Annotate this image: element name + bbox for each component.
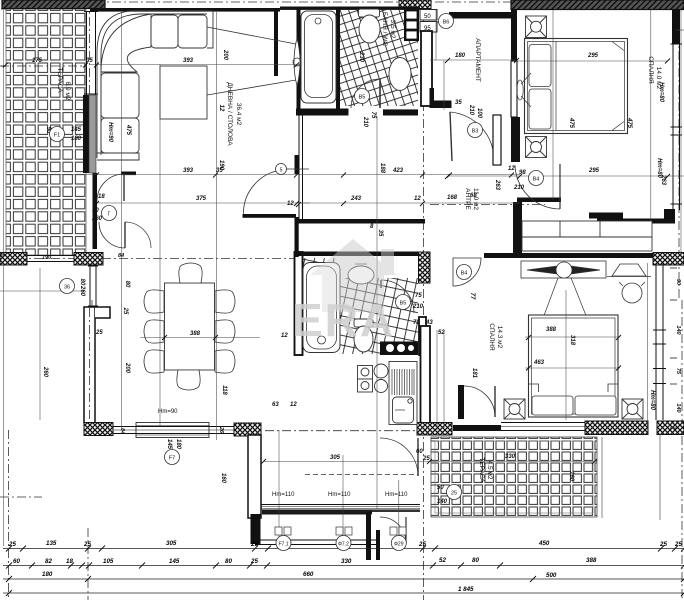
svg-text:77: 77 [469, 293, 475, 300]
svg-text:Ф29: Ф29 [394, 542, 404, 548]
svg-text:18: 18 [98, 194, 105, 200]
svg-text:25: 25 [122, 307, 128, 315]
svg-text:36.4 м2: 36.4 м2 [235, 103, 242, 126]
living west wall segment [93, 173, 98, 249]
row1 labels [8, 540, 682, 548]
svg-text:СПАЛНЯ: СПАЛНЯ [488, 323, 495, 351]
svg-text:388: 388 [190, 331, 201, 337]
svg-text:90: 90 [675, 279, 681, 285]
bed 2 bedroom bottom-right [529, 315, 619, 417]
svg-text:200: 200 [124, 362, 130, 374]
inner dim ticks [3, 58, 670, 464]
tick marks rows [6, 546, 684, 597]
entrance door B3 arc [450, 112, 501, 165]
kitchen west wall band [248, 435, 261, 518]
small paired boxes above circles [275, 527, 406, 535]
south wall below window [262, 510, 372, 515]
svg-text:18: 18 [66, 558, 73, 565]
terrace-living wall lower black [83, 95, 89, 173]
bathroom2 right wall below door [419, 317, 426, 355]
door bathroom2 arc [381, 280, 414, 313]
svg-text:60: 60 [13, 558, 20, 565]
svg-text:25: 25 [418, 541, 426, 548]
bathtub 1 [301, 11, 336, 103]
svg-text:B4: B4 [461, 271, 468, 277]
bedroom1 bottom wall right part [589, 213, 623, 219]
svg-text:100: 100 [476, 108, 482, 119]
svg-text:Hm=90: Hm=90 [158, 409, 178, 415]
door bath1 arc [351, 79, 380, 108]
svg-text:263: 263 [660, 174, 666, 186]
bedroom1 left wall [511, 10, 517, 118]
ceiling fan bedroom2 [521, 261, 606, 345]
svg-text:140: 140 [675, 325, 681, 334]
svg-text:84: 84 [118, 253, 124, 259]
svg-text:330: 330 [505, 454, 516, 460]
svg-text:B4: B4 [533, 177, 540, 183]
svg-text:423: 423 [392, 168, 404, 174]
svg-text:105: 105 [103, 558, 114, 565]
bedside tables bedroom2 [504, 399, 643, 419]
svg-text:305: 305 [330, 455, 341, 461]
svg-text:295: 295 [587, 53, 599, 59]
svg-text:52: 52 [439, 557, 446, 564]
door bottom entrance small arc [380, 517, 406, 543]
svg-text:12: 12 [290, 402, 297, 408]
svg-text:25: 25 [8, 541, 16, 548]
svg-text:84: 84 [119, 428, 125, 434]
svg-text:181: 181 [471, 368, 477, 379]
svg-text:60: 60 [416, 449, 423, 455]
bathtub1 left wall [297, 8, 301, 111]
svg-text:75: 75 [675, 368, 681, 375]
svg-text:145: 145 [169, 558, 180, 565]
tub alcove right wall [336, 9, 340, 110]
svg-text:80: 80 [124, 281, 130, 288]
svg-text:160: 160 [220, 473, 226, 484]
svg-text:230: 230 [358, 51, 364, 63]
bedroom1 right window wall [671, 10, 683, 210]
svg-text:50: 50 [424, 14, 431, 20]
svg-text:140: 140 [437, 499, 448, 505]
svg-text:63: 63 [272, 402, 279, 408]
svg-text:36: 36 [64, 285, 70, 291]
svg-text:90: 90 [92, 208, 99, 214]
hall-living wall lines [299, 110, 303, 222]
left edge small ticks [1, 9, 6, 255]
svg-text:F1: F1 [54, 133, 60, 139]
hatched block above shaft [399, 0, 431, 9]
svg-text:90: 90 [672, 27, 678, 34]
watermark ERA house logo [292, 239, 397, 346]
svg-text:Hm=80: Hm=80 [658, 82, 664, 103]
svg-text:43: 43 [425, 320, 433, 326]
svg-text:25: 25 [674, 541, 682, 548]
top-right hatched wall strip [511, 0, 684, 10]
bath1 bottom wall right piece [383, 109, 418, 115]
svg-text:52: 52 [438, 330, 445, 336]
svg-text:12: 12 [414, 196, 421, 202]
right edge dim chain [675, 279, 681, 413]
door kitchen-terrace2 arc [380, 438, 418, 476]
svg-text:260: 260 [42, 366, 48, 378]
toilet 1 [359, 9, 381, 43]
armchair balcony right [607, 264, 651, 303]
svg-text:500: 500 [546, 572, 557, 579]
svg-text:263: 263 [494, 179, 500, 191]
svg-text:210: 210 [468, 104, 474, 116]
shaft small boxes with labels 50 95 [420, 10, 437, 33]
svg-text:БАНЯ / WC: БАНЯ / WC [381, 12, 388, 46]
corridor bottom walls above bathroom2 [296, 219, 425, 224]
svg-text:180: 180 [42, 571, 53, 578]
svg-text:ТЕРАСА: ТЕРАСА [56, 67, 63, 93]
svg-text:135: 135 [46, 540, 57, 547]
rotated dimension texts [42, 27, 678, 484]
corridor top wall [449, 12, 512, 19]
svg-text:5: 5 [280, 168, 283, 174]
svg-text:175: 175 [32, 58, 43, 64]
hatched pier right middle [653, 253, 684, 266]
svg-text:АНТРЕ: АНТРЕ [464, 188, 471, 210]
svg-text:475: 475 [568, 117, 574, 129]
kitchen unit column [389, 362, 417, 425]
svg-text:200: 200 [222, 49, 228, 61]
door bedroom2 lower arc [458, 385, 495, 419]
bedroom2 bottom wall [453, 425, 501, 431]
svg-text:25: 25 [250, 541, 258, 548]
wall lamp living + leaders [207, 27, 301, 95]
bathroom 2 tile floor [339, 278, 418, 354]
svg-text:450: 450 [538, 540, 550, 547]
svg-text:25: 25 [659, 541, 667, 548]
svg-text:82: 82 [45, 558, 52, 565]
sink 2 [348, 264, 374, 284]
svg-text:190: 190 [218, 160, 224, 171]
svg-text:210: 210 [513, 185, 525, 191]
svg-text:375: 375 [196, 196, 207, 202]
bed 1 bedroom top-right [525, 39, 628, 134]
svg-text:393: 393 [183, 168, 194, 174]
svg-text:ERA: ERA [292, 294, 395, 346]
svg-text:388: 388 [586, 557, 597, 564]
sink bowls kitchen [374, 364, 388, 393]
svg-text:50: 50 [437, 485, 444, 491]
svg-text:25: 25 [95, 330, 103, 336]
corridor-bathroom walls [421, 31, 432, 106]
corner sofa [97, 11, 213, 161]
svg-text:Hm=110: Hm=110 [328, 492, 351, 498]
wardrobe [522, 221, 652, 251]
svg-text:80: 80 [472, 557, 479, 564]
svg-text:12: 12 [218, 105, 224, 112]
svg-text:СПАЛНЯ: СПАЛНЯ [647, 56, 654, 84]
svg-text:1 845: 1 845 [458, 586, 474, 593]
svg-text:11.0 м2: 11.0 м2 [472, 188, 479, 210]
wall lamp bedroom1 [517, 73, 531, 107]
bedroom2 right window wall [653, 263, 666, 420]
svg-text:B3: B3 [472, 129, 479, 135]
svg-text:180: 180 [71, 136, 82, 142]
svg-text:B5: B5 [400, 301, 407, 307]
svg-text:4.5 м2: 4.5 м2 [486, 461, 493, 480]
svg-text:388: 388 [546, 327, 557, 333]
bathroom2 top wall [296, 252, 424, 257]
svg-text:243: 243 [350, 196, 362, 202]
svg-text:190: 190 [42, 255, 51, 261]
svg-text:B6: B6 [443, 20, 450, 26]
watermark overlay [292, 239, 397, 346]
svg-text:180: 180 [175, 439, 181, 450]
svg-text:393: 393 [183, 58, 194, 64]
svg-text:145: 145 [166, 439, 172, 450]
bathroom 1 tile floor [340, 10, 418, 106]
shaft black block [404, 8, 419, 41]
hatched block below kitchen wall [417, 423, 452, 436]
top-left hatched wall strip [2, 0, 105, 9]
living-hall door: leaf bar, badge, arc, walls [243, 155, 310, 257]
svg-text:180: 180 [455, 53, 466, 59]
leader to B6 [437, 22, 452, 25]
svg-text:210: 210 [412, 304, 424, 310]
window left lower [88, 265, 98, 307]
svg-text:Hm=90: Hm=90 [107, 122, 113, 143]
svg-text:330: 330 [341, 558, 352, 565]
svg-text:14.3 м2: 14.3 м2 [496, 326, 503, 349]
kitchen dark counter [380, 342, 418, 356]
svg-text:B5: B5 [359, 95, 366, 101]
svg-text:305: 305 [166, 540, 177, 547]
window height labels [158, 409, 408, 498]
svg-text:260: 260 [79, 285, 85, 297]
svg-text:Hm=110: Hm=110 [385, 492, 408, 498]
dimension texts inner [32, 53, 600, 462]
svg-text:35: 35 [377, 230, 383, 237]
door B5 bedroom2 arc [453, 258, 481, 286]
terrace 2 tile floor [431, 437, 597, 517]
svg-text:260: 260 [91, 216, 103, 222]
thin reference lines horizontal [0, 60, 684, 462]
svg-text:75: 75 [415, 293, 422, 299]
svg-text:25: 25 [422, 456, 430, 462]
balcony outline right [602, 30, 684, 520]
svg-text:Ф7.2: Ф7.2 [338, 542, 349, 548]
sink 1 [389, 58, 411, 91]
kitchen-bedroom2 wall [421, 326, 431, 423]
svg-text:160: 160 [568, 471, 574, 482]
corridor/bedroom1 wall with door opening [511, 117, 520, 162]
living room top wall [90, 8, 280, 12]
svg-text:12: 12 [281, 333, 288, 339]
svg-text:210: 210 [362, 116, 368, 128]
svg-text:80: 80 [79, 279, 85, 286]
oven [358, 366, 373, 393]
svg-text:Г: Г [108, 212, 111, 218]
svg-text:463: 463 [533, 360, 545, 366]
svg-text:Hm=80: Hm=80 [649, 390, 655, 411]
svg-text:98: 98 [519, 170, 526, 176]
circled labels [50, 14, 544, 551]
terrace 1 tile floor [6, 9, 86, 255]
svg-text:75: 75 [370, 112, 376, 119]
svg-text:295: 295 [588, 168, 600, 174]
svg-text:ДНЕВНА / СТОЛОВА: ДНЕВНА / СТОЛОВА [226, 82, 233, 146]
svg-text:145: 145 [71, 127, 82, 133]
svg-text:475: 475 [626, 117, 632, 129]
bath top wall [280, 7, 420, 10]
svg-text:318: 318 [569, 335, 575, 346]
row3 labels [42, 571, 557, 579]
svg-text:12: 12 [508, 166, 515, 172]
svg-text:660: 660 [303, 571, 314, 578]
svg-text:168: 168 [447, 195, 458, 201]
svg-text:26: 26 [218, 426, 224, 434]
wall living/bath vertical [274, 8, 278, 76]
coffee table [160, 66, 207, 119]
svg-text:118: 118 [221, 385, 227, 395]
tub1 bottom wall [296, 109, 349, 116]
svg-text:140: 140 [675, 403, 681, 412]
terrace bottom hatch piers [0, 253, 27, 266]
south window band kitchen room [261, 505, 420, 510]
svg-text:35: 35 [455, 100, 462, 106]
svg-text:12: 12 [287, 201, 294, 207]
svg-text:АПАРТАМЕНТ: АПАРТАМЕНТ [474, 38, 481, 82]
svg-text:ТЕРАСА: ТЕРАСА [478, 457, 485, 483]
terrace french doors [97, 172, 151, 249]
svg-text:6.9 м2: 6.9 м2 [64, 82, 71, 101]
terrace-living window wall upper [84, 11, 98, 95]
dining table [165, 283, 215, 370]
svg-text:68: 68 [470, 193, 477, 199]
svg-text:F7.1: F7.1 [278, 542, 288, 548]
dimension rows bottom [3, 549, 684, 594]
bathtub 2 [303, 263, 340, 353]
toilet 2 [354, 319, 373, 352]
dashed hidden line above south window [305, 474, 418, 476]
svg-text:72: 72 [413, 320, 420, 326]
hatched pier right of bathroom2 [419, 252, 431, 283]
svg-text:188: 188 [379, 163, 385, 174]
svg-text:475: 475 [125, 124, 131, 136]
svg-text:Hm=110: Hm=110 [272, 492, 295, 498]
svg-text:80: 80 [225, 558, 232, 565]
room labels [56, 12, 662, 483]
bathroom2 left wall [295, 252, 303, 355]
bottom-left entrance walls [255, 512, 380, 560]
row2 labels [13, 557, 597, 565]
dining west wall centerline [89, 308, 91, 422]
corridor wall bedroom2 top [517, 198, 561, 203]
bedside tables bedroom1 [526, 16, 547, 158]
dining bottom wall: hatch piers + window [84, 423, 113, 436]
door B4 bedroom1 arc [515, 164, 560, 209]
terrace bottom window [27, 256, 74, 262]
dining west wall band [84, 307, 110, 423]
bedroom2 top wall [484, 253, 654, 258]
svg-text:F7: F7 [169, 456, 175, 462]
dining chairs [144, 263, 235, 390]
svg-text:25: 25 [451, 491, 457, 497]
svg-text:3.5 м2: 3.5 м2 [389, 20, 396, 39]
svg-text:25: 25 [250, 558, 258, 565]
svg-text:25: 25 [83, 541, 91, 548]
